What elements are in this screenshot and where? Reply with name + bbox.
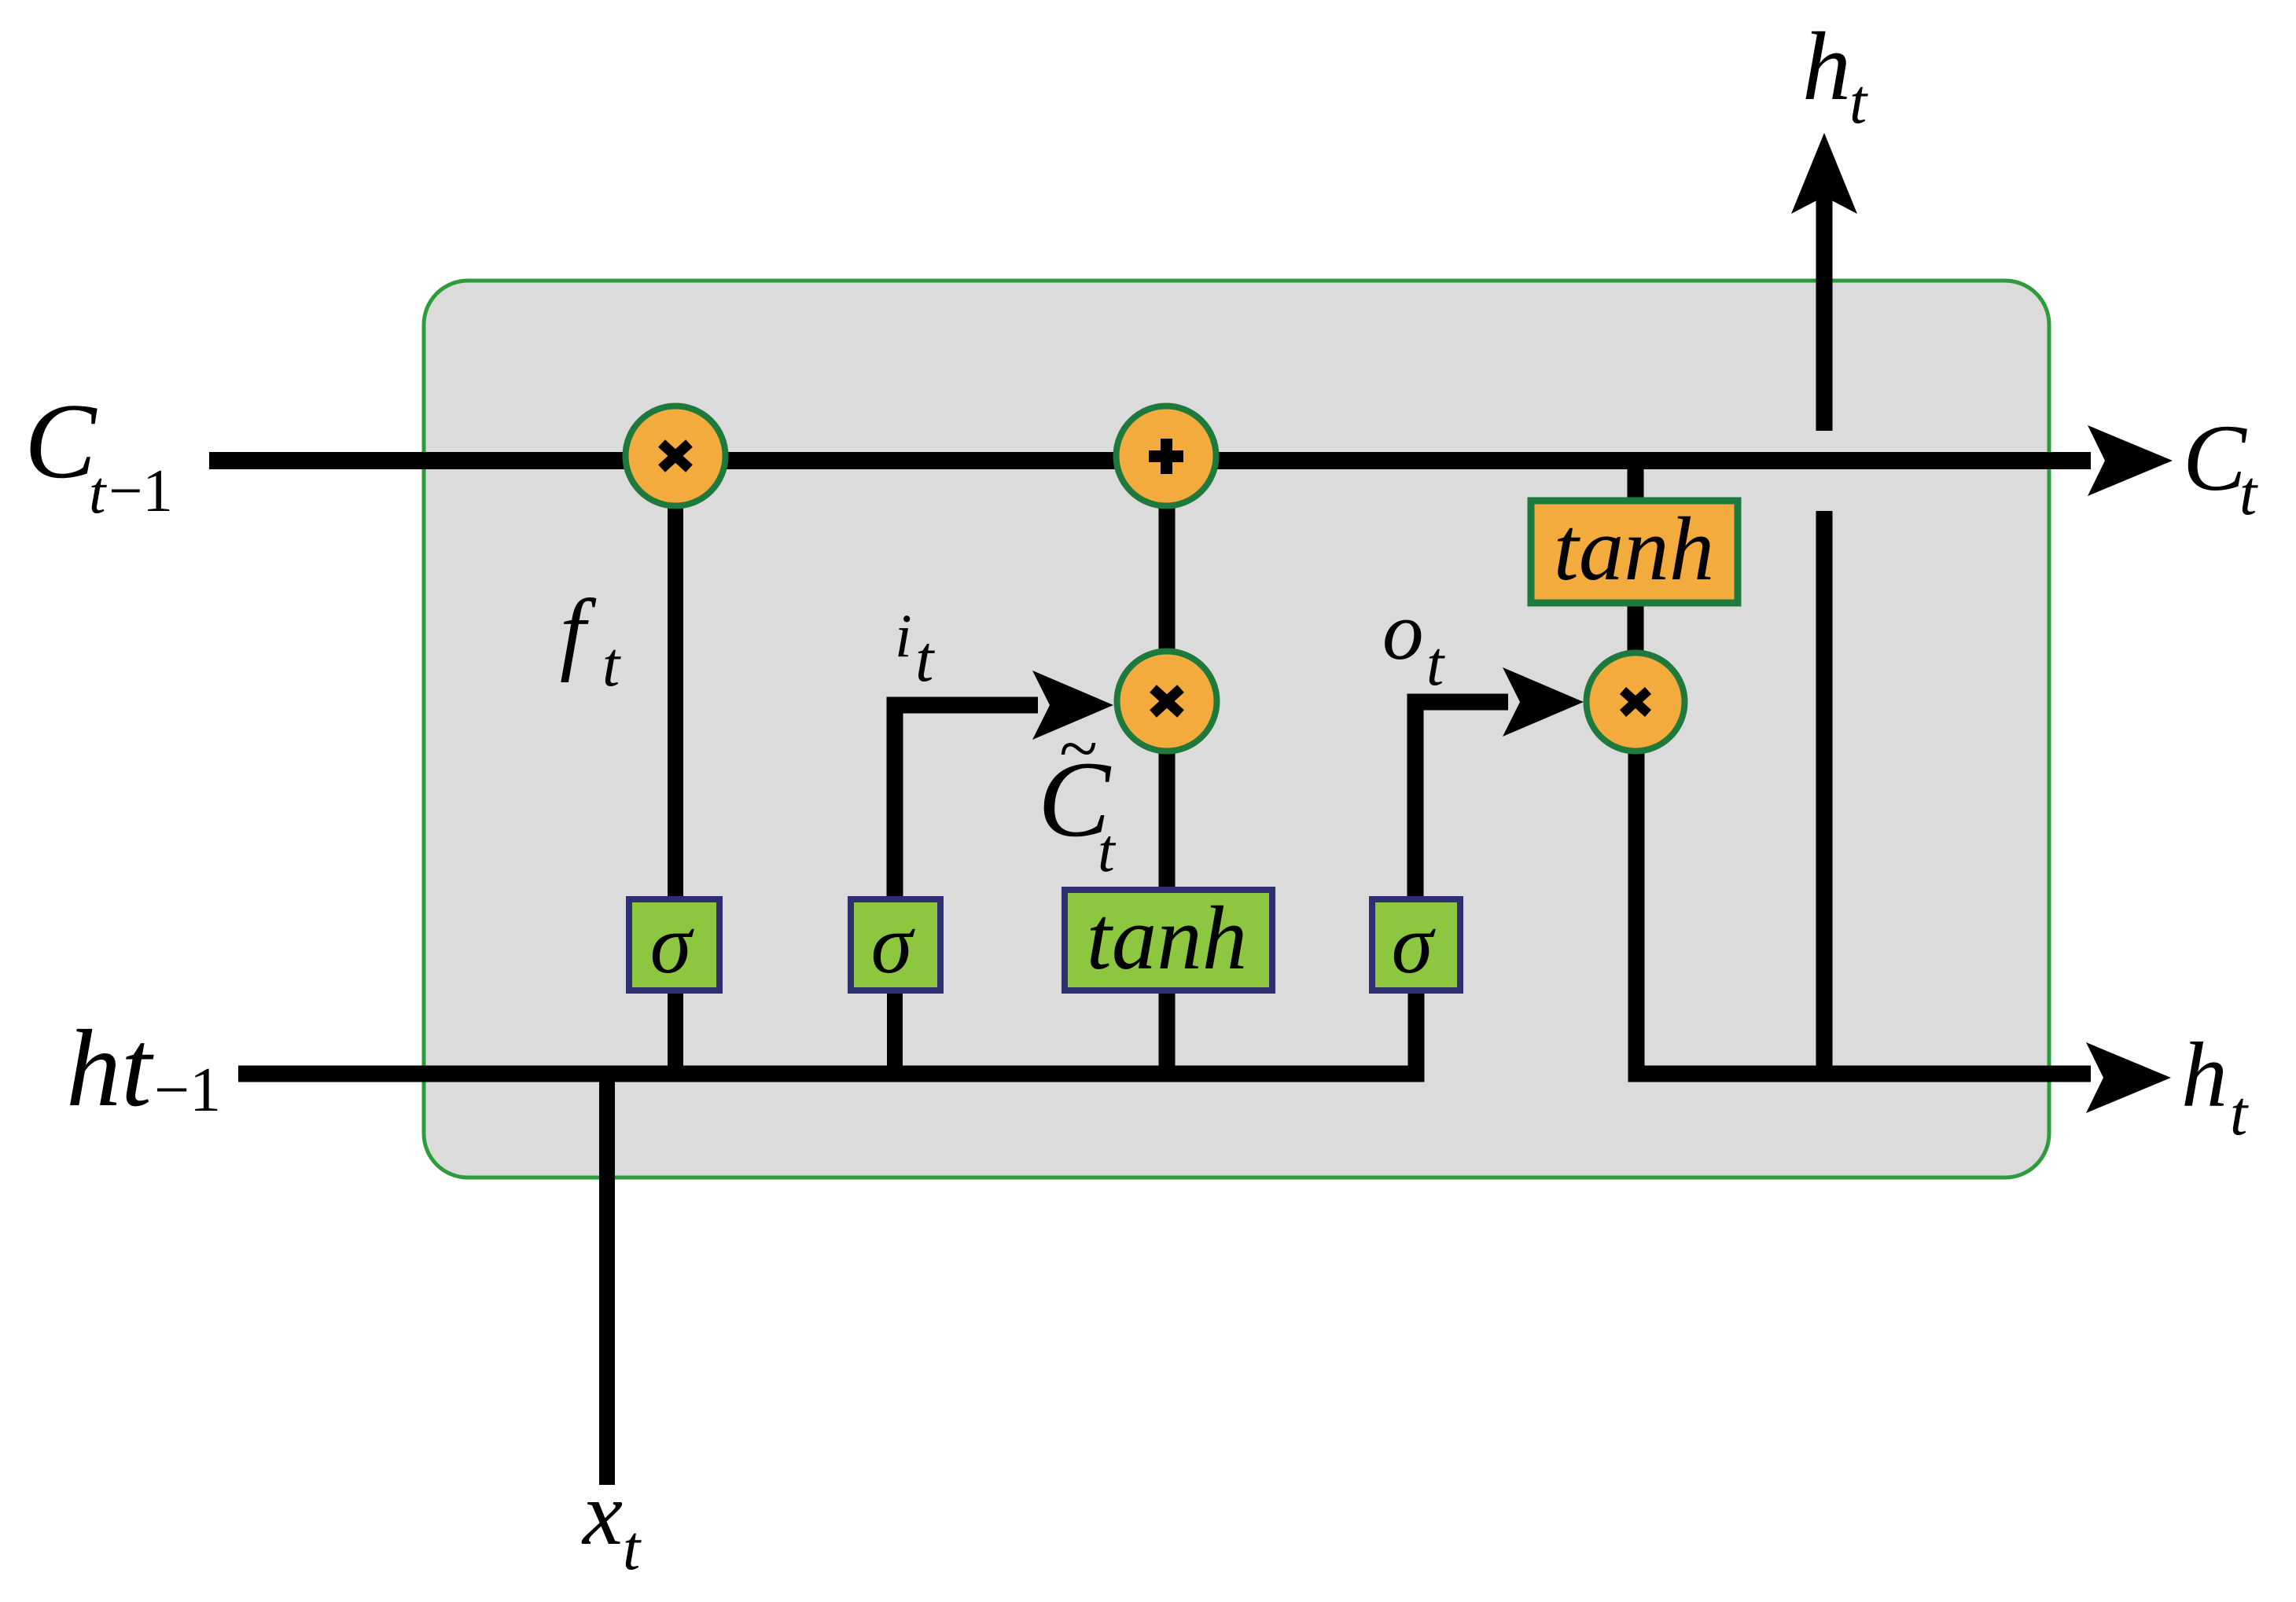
arrowhead h_t top [1791, 133, 1857, 214]
svg-text:σ: σ [871, 898, 916, 991]
svg-text:C: C [24, 381, 98, 501]
wire C line horizontal [209, 452, 2091, 469]
svg-text:σ: σ [650, 898, 695, 991]
sigma box 2 [851, 899, 940, 990]
svg-text:t: t [2230, 1079, 2249, 1148]
wire sigma2 to h line [887, 992, 903, 1074]
wire orange tanh box to right times circle [1628, 604, 1644, 654]
wire sigma1 to h line [668, 992, 683, 1074]
multiply circle 2 (input gate) [1117, 652, 1217, 751]
wire plus to mid times circle [1159, 503, 1176, 652]
svg-text:t: t [1849, 68, 1868, 137]
svg-text:h: h [1802, 13, 1851, 120]
wire f_t vertical upper [668, 503, 683, 899]
svg-text:t: t [1426, 630, 1445, 699]
svg-text:x: x [581, 1464, 623, 1563]
svg-text:o: o [1382, 585, 1424, 677]
wire mid times circle to tanh box [1159, 751, 1176, 890]
wire h_t branch vertical lower [1816, 511, 1833, 1074]
wire i_t corner into sigma2 [895, 705, 1038, 899]
wire o_t corner into sigma3 [1415, 702, 1508, 899]
multiply circle 3 (output gate) [1587, 653, 1685, 751]
sigma box 3 [1372, 899, 1460, 990]
add circle (cell update) [1117, 406, 1216, 506]
LSTM cell body (gray rounded rect) [424, 281, 2049, 1178]
svg-text:t: t [623, 1514, 642, 1583]
wire h_t branch vertical upper (bridge gap over C) [1816, 197, 1833, 431]
svg-text:ht: ht [66, 1008, 154, 1130]
wire x_t vertical [599, 1074, 615, 1485]
svg-text:t: t [915, 623, 936, 696]
arrowhead i_t [1032, 671, 1113, 740]
times symbol 3 [1623, 691, 1648, 714]
wire h line left segment with corner up to sigma3 [238, 994, 1416, 1074]
wire tanh box to h line [1159, 992, 1176, 1074]
multiply circle 1 (forget gate) [626, 406, 726, 506]
arrowhead h_t right [2086, 1042, 2171, 1113]
times symbol 2 [1154, 689, 1181, 714]
svg-text:C: C [2183, 406, 2247, 511]
tanh box orange [1531, 501, 1738, 603]
arrowhead C_t [2088, 425, 2173, 496]
svg-text:h: h [2181, 1023, 2228, 1126]
sigma box 1 [629, 899, 719, 990]
svg-text:tanh: tanh [1554, 499, 1714, 599]
plus symbol [1149, 450, 1183, 462]
svg-text:σ: σ [1392, 898, 1437, 991]
svg-text:i: i [895, 601, 912, 670]
svg-text:−1: −1 [154, 1056, 221, 1125]
tanh box green [1065, 890, 1272, 990]
wire C line to orange tanh box [1628, 461, 1644, 503]
svg-text:−1: −1 [109, 457, 173, 524]
times symbol 1 [662, 443, 690, 468]
svg-text:t: t [89, 458, 107, 526]
svg-text:t: t [2239, 459, 2258, 528]
svg-text:t: t [602, 630, 621, 700]
wire right times circle down and right to h_t output [1636, 751, 2091, 1074]
svg-text:~: ~ [1058, 710, 1097, 788]
svg-text:t: t [1098, 816, 1117, 884]
svg-text:tanh: tanh [1087, 888, 1247, 988]
arrowhead o_t [1503, 667, 1584, 737]
